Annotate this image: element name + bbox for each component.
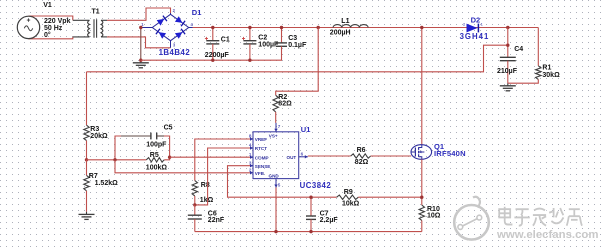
label IRF540N xyxy=(434,149,466,158)
svg-text:R6: R6 xyxy=(357,147,366,154)
resistor R5 xyxy=(146,152,170,172)
bridge rectifier D1 (1B4B42) xyxy=(141,8,194,48)
diode D2 (3GH41) xyxy=(463,22,483,32)
node D1 pin1 xyxy=(139,26,142,29)
wire VREF pin to R8 xyxy=(195,139,251,181)
wire output feedback to divider xyxy=(87,45,508,72)
svg-text:www.elecfans.com: www.elecfans.com xyxy=(496,229,599,241)
svg-text:100pF: 100pF xyxy=(146,142,167,149)
capacitor C4 xyxy=(497,28,523,84)
svg-text:10Ω: 10Ω xyxy=(427,212,441,219)
svg-text:0.1µF: 0.1µF xyxy=(288,42,307,49)
transistor Q1 (IRF540N) xyxy=(411,145,432,160)
svg-text:3: 3 xyxy=(249,160,252,165)
wire OUT pin to R6 xyxy=(308,155,351,157)
node C1 top xyxy=(211,26,214,29)
svg-text:100kΩ: 100kΩ xyxy=(146,164,168,171)
svg-text:T1: T1 xyxy=(92,9,100,16)
wire GND pin to bottom rail xyxy=(275,188,277,232)
capacitor C1 xyxy=(205,28,230,61)
resistor R3 xyxy=(84,72,108,160)
node C5 left xyxy=(113,158,116,161)
svg-text:D1: D1 xyxy=(192,8,202,17)
svg-text:1: 1 xyxy=(481,22,483,26)
node ground rail xyxy=(139,59,142,62)
capacitor C5 xyxy=(115,124,173,159)
node C4 feedback tap xyxy=(506,44,509,47)
svg-text:2.2µF: 2.2µF xyxy=(320,217,339,224)
label Q1 xyxy=(434,142,444,151)
svg-text:IRF540N: IRF540N xyxy=(434,149,466,158)
label UC3842 xyxy=(300,181,332,190)
resistor R9 xyxy=(337,189,422,207)
inductor L1 xyxy=(330,18,368,36)
svg-text:OUT: OUT xyxy=(287,155,297,160)
ground under R7 xyxy=(79,212,95,220)
svg-text:R8: R8 xyxy=(201,182,210,189)
capacitor C3 xyxy=(276,28,307,49)
node output rail xyxy=(506,26,509,29)
wire supply tap to R2 xyxy=(276,28,319,96)
svg-text:C5: C5 xyxy=(164,124,173,131)
capacitor C6 xyxy=(188,205,225,232)
svg-text:VFB: VFB xyxy=(255,171,265,176)
wire SENSE pin to R9 xyxy=(228,166,337,198)
wire RTCT pin to R8 bottom xyxy=(195,148,251,205)
svg-text:2200µF: 2200µF xyxy=(205,52,230,59)
svg-text:L1: L1 xyxy=(341,18,349,25)
svg-text:5: 5 xyxy=(278,182,281,187)
node R8 C6 junction xyxy=(193,203,196,206)
label 3GH41 xyxy=(460,32,490,41)
ground under D1 xyxy=(133,60,149,68)
voltage source V1 xyxy=(17,2,73,39)
node C7 top xyxy=(309,196,312,199)
wire rail to Q1 drain xyxy=(421,28,423,145)
watermark text xyxy=(496,207,599,241)
ground under C4 xyxy=(500,83,516,91)
svg-text:220 Vpk: 220 Vpk xyxy=(44,18,71,25)
svg-text:RTCT: RTCT xyxy=(255,146,267,151)
svg-text:U1: U1 xyxy=(301,125,311,134)
node divider mid xyxy=(85,158,88,161)
capacitor C2 xyxy=(242,28,279,61)
svg-text:82Ω: 82Ω xyxy=(355,159,369,166)
label U1 xyxy=(301,125,311,134)
svg-text:1.52kΩ: 1.52kΩ xyxy=(95,180,119,187)
svg-text:2: 2 xyxy=(463,22,465,26)
svg-text:C1: C1 xyxy=(221,37,230,44)
svg-text:C4: C4 xyxy=(514,46,523,53)
svg-text:2: 2 xyxy=(249,168,252,173)
wire to VFB pin xyxy=(115,160,251,173)
svg-text:R9: R9 xyxy=(344,189,353,196)
svg-text:D2: D2 xyxy=(471,16,481,25)
wire Q1 source to R10 xyxy=(421,159,423,205)
svg-text:4: 4 xyxy=(249,143,252,148)
node GND rail join xyxy=(274,230,277,233)
wire bottom rail xyxy=(195,231,422,233)
op-amp controller U1 (UC3842) xyxy=(249,123,308,188)
svg-text:VREF: VREF xyxy=(255,137,267,142)
wire T1 secondary top to D1 pin2 xyxy=(107,8,171,20)
svg-text:1B4B42: 1B4B42 xyxy=(159,48,191,57)
svg-text:22nF: 22nF xyxy=(208,217,225,224)
svg-text:6: 6 xyxy=(301,152,304,157)
svg-text:50 Hz: 50 Hz xyxy=(44,25,63,32)
svg-text:3GH41: 3GH41 xyxy=(460,32,490,41)
svg-text:COMP: COMP xyxy=(255,155,269,160)
svg-text:7: 7 xyxy=(278,124,281,129)
svg-text:VS+: VS+ xyxy=(269,133,278,138)
node COMP join xyxy=(168,156,171,159)
node C2 top xyxy=(248,26,251,29)
svg-text:82Ω: 82Ω xyxy=(278,100,292,107)
svg-text:V1: V1 xyxy=(43,2,52,9)
svg-text:210µF: 210µF xyxy=(497,68,518,75)
svg-text:SENSE: SENSE xyxy=(255,164,271,169)
node C7 bottom xyxy=(309,230,312,233)
svg-text:R5: R5 xyxy=(150,152,159,159)
resistor R10 xyxy=(419,205,441,232)
wire divider to R5 xyxy=(87,159,147,161)
label 1B4B42 xyxy=(159,48,191,57)
node drain tap xyxy=(420,26,423,29)
watermark logo xyxy=(454,197,489,240)
label D2 xyxy=(471,16,481,25)
resistor R7 xyxy=(84,160,118,212)
resistor R6 xyxy=(351,147,412,166)
svg-text:1: 1 xyxy=(249,152,252,157)
capacitor C7 xyxy=(306,197,338,231)
wire to COMP pin xyxy=(170,156,251,158)
node L1 input tap xyxy=(317,26,320,29)
node C2 bottom xyxy=(248,59,251,62)
resistor R1 xyxy=(508,28,560,84)
svg-text:10kΩ: 10kΩ xyxy=(342,200,360,207)
resistor R8 xyxy=(192,181,213,205)
resistor R2 xyxy=(273,94,292,123)
node C3 top xyxy=(280,26,283,29)
svg-text:200µH: 200µH xyxy=(330,30,351,37)
svg-text:100µF: 100µF xyxy=(258,41,279,48)
wire top rail D1 to R1 xyxy=(193,27,539,29)
node C1 bottom xyxy=(211,59,214,62)
svg-text:UC3842: UC3842 xyxy=(300,181,332,190)
svg-text:1kΩ: 1kΩ xyxy=(200,197,214,204)
svg-text:30kΩ: 30kΩ xyxy=(542,72,560,79)
node source sense xyxy=(420,196,423,199)
transformer T1 xyxy=(73,9,107,38)
svg-text:20kΩ: 20kΩ xyxy=(90,133,108,140)
wire T1 secondary bottom to D1 pin3 xyxy=(107,37,171,48)
svg-text:R1: R1 xyxy=(542,65,551,72)
svg-text:8: 8 xyxy=(249,134,252,139)
svg-text:0°: 0° xyxy=(44,31,51,39)
label D1 xyxy=(192,8,202,17)
wire D1 pin1 to ground xyxy=(140,28,142,61)
wire ground rail to C3 bottom xyxy=(141,48,282,60)
svg-text:GND: GND xyxy=(269,174,280,179)
